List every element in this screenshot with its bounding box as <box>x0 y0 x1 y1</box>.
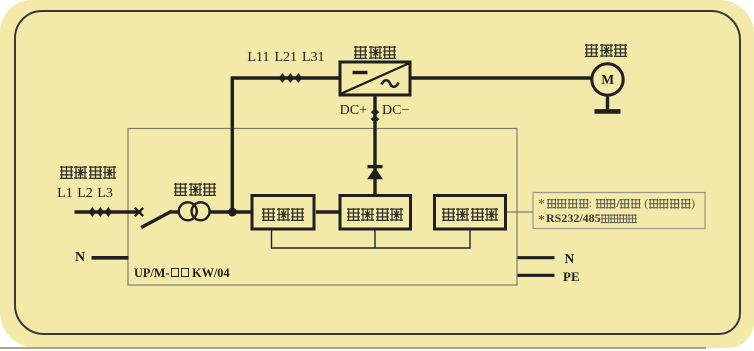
svg-text:M: M <box>601 72 614 87</box>
